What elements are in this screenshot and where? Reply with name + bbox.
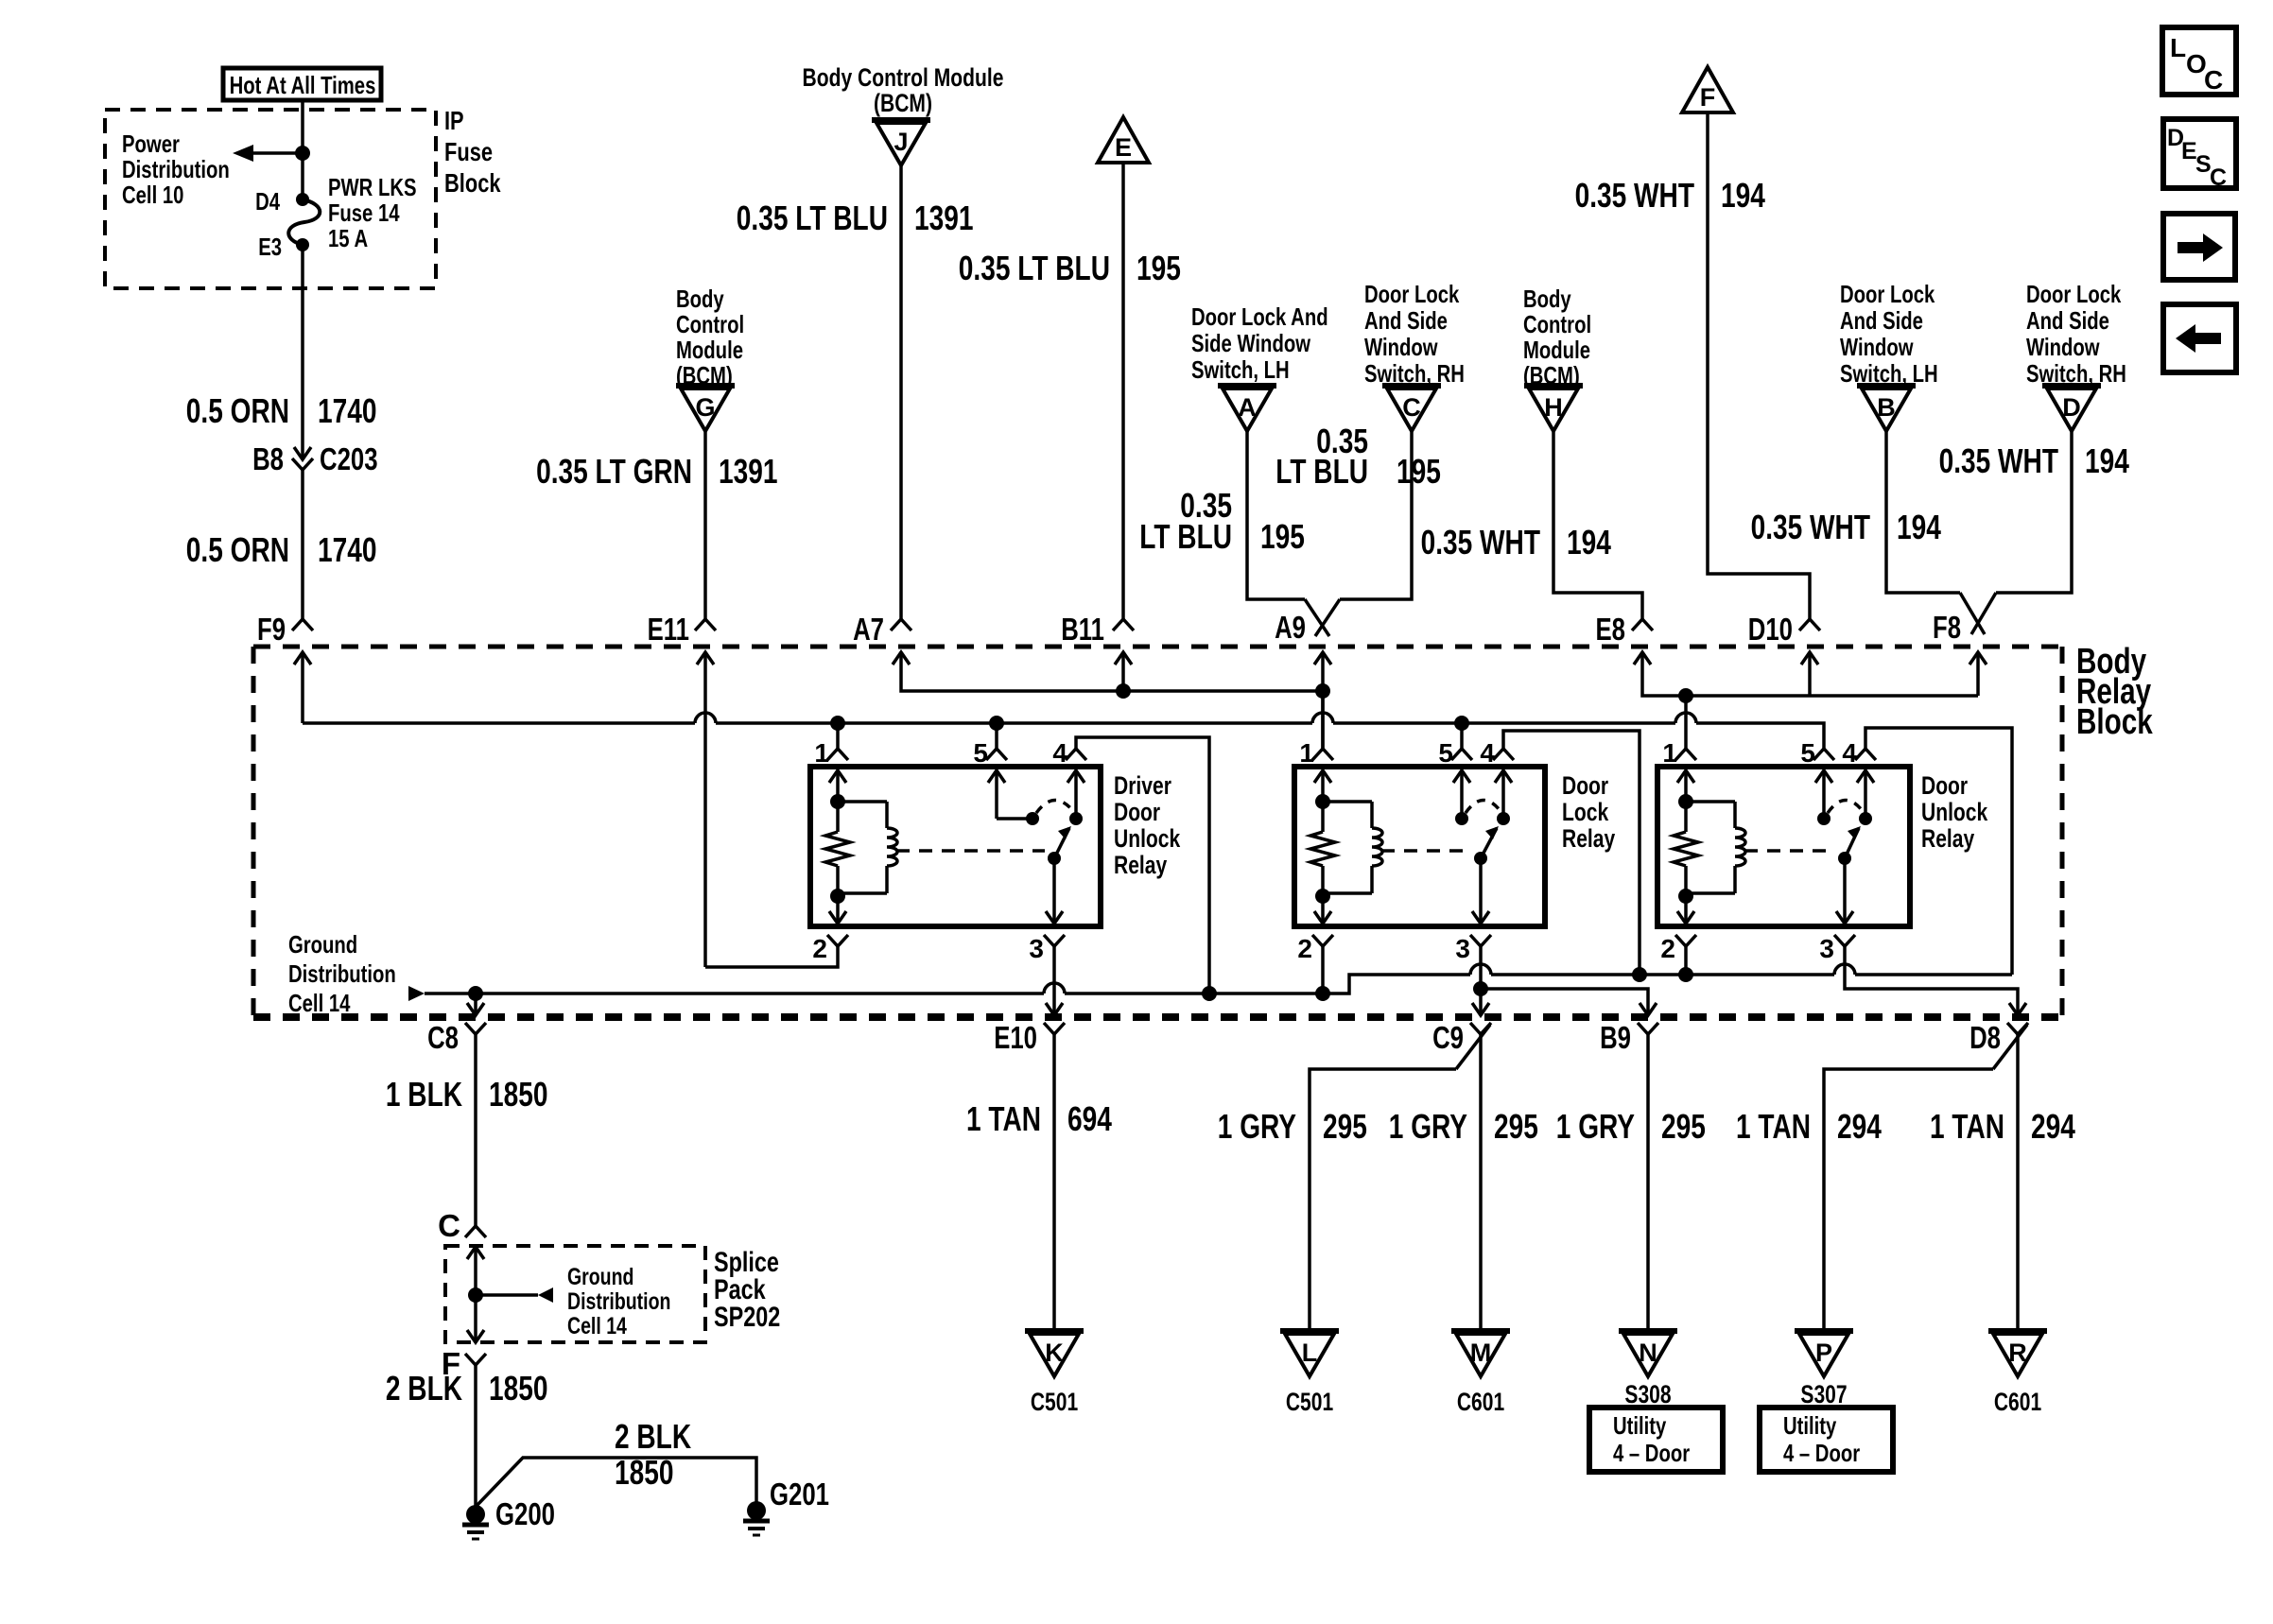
svg-text:4: 4 <box>1480 738 1495 768</box>
wire: C9 straight to M <box>1479 1034 1483 1329</box>
off-page connector G (BCM) <box>676 386 735 431</box>
svg-text:194: 194 <box>2085 441 2129 480</box>
svg-text:D8: D8 <box>1969 1020 2001 1055</box>
off-page connector H (BCM) <box>1524 386 1583 431</box>
connector pin D8 <box>1969 1003 2028 1069</box>
off-page connector B <box>1857 386 1916 431</box>
Utility 4-Door box (S308) <box>1589 1408 1723 1472</box>
connector pin B9 <box>1600 1003 1658 1329</box>
wire: relay2 pin 3 down to C9 and B9 <box>1473 946 1648 1015</box>
svg-text:G200: G200 <box>495 1496 555 1531</box>
svg-text:Body Control Module: Body Control Module <box>803 63 1004 92</box>
svg-text:0.35 WHT: 0.35 WHT <box>1751 508 1870 546</box>
svg-text:G: G <box>695 393 715 422</box>
svg-text:195: 195 <box>1136 249 1181 287</box>
wire label 1 BLK 1850 <box>386 1075 548 1114</box>
svg-text:PWR LKS: PWR LKS <box>328 173 417 201</box>
svg-text:C8: C8 <box>427 1020 459 1055</box>
svg-text:C203: C203 <box>320 441 378 476</box>
svg-text:Window: Window <box>2026 333 2100 361</box>
svg-text:Relay: Relay <box>1921 824 1974 853</box>
svg-text:Block: Block <box>444 168 501 198</box>
wire label 1 GRY 295 (M) <box>1389 1107 1538 1146</box>
off-page connector A <box>1218 386 1276 431</box>
svg-text:B8: B8 <box>252 441 284 476</box>
svg-text:Window: Window <box>1364 333 1438 361</box>
wire: relay3 pin 2 to ground line <box>1684 946 1688 975</box>
off-page connector M (C601) <box>1451 1331 1510 1416</box>
svg-text:5: 5 <box>1438 738 1453 768</box>
svg-text:4 – Door: 4 – Door <box>1783 1439 1860 1467</box>
connector pin F (splice pack output) <box>442 1346 486 1507</box>
wire: ground distribution line <box>425 964 2012 993</box>
svg-text:194: 194 <box>1721 176 1765 215</box>
svg-text:0.5 ORN: 0.5 ORN <box>186 530 289 569</box>
Ground Distribution Cell 14 label (block) <box>288 930 396 1017</box>
svg-text:Cell 14: Cell 14 <box>567 1313 627 1339</box>
wire: bus branch to relay2 pin 5 <box>1460 723 1464 749</box>
svg-text:Relay: Relay <box>1562 824 1615 853</box>
svg-text:D: D <box>2062 393 2081 422</box>
Splice Pack SP202 dashed box <box>445 1246 705 1342</box>
wire: fuse output 0.5 ORN 1740 (upper) <box>301 245 304 459</box>
svg-text:Door Lock: Door Lock <box>1364 280 1460 308</box>
svg-text:LT BLU: LT BLU <box>1139 517 1232 556</box>
svg-text:Unlock: Unlock <box>1921 798 1988 826</box>
svg-text:295: 295 <box>1661 1107 1706 1146</box>
svg-text:C: C <box>438 1208 460 1243</box>
svg-text:15 A: 15 A <box>328 224 368 252</box>
svg-text:J: J <box>894 128 908 156</box>
svg-text:Cell 10: Cell 10 <box>122 181 183 209</box>
wire label 0.35 LT BLU 195 <box>959 249 1181 287</box>
off-page connector D <box>2042 386 2101 431</box>
svg-text:F9: F9 <box>257 612 286 647</box>
svg-text:Module: Module <box>1523 336 1590 364</box>
svg-text:Cell 14: Cell 14 <box>288 989 351 1017</box>
svg-text:And Side: And Side <box>2026 306 2109 335</box>
Ground Distribution Cell 14 label (splice) <box>567 1264 670 1339</box>
wire: B down to F8 <box>1886 431 1985 634</box>
wire: bus branch to relay1 pin 1 <box>836 723 840 749</box>
svg-text:Door: Door <box>1114 798 1160 826</box>
svg-text:5: 5 <box>1800 738 1815 768</box>
wire: D8 branch to P <box>1824 1069 1993 1329</box>
wire: bus branch to relay1 pin 5 <box>995 723 998 749</box>
connector pin A7 <box>853 612 1323 691</box>
svg-text:L: L <box>2170 33 2186 62</box>
svg-text:Distribution: Distribution <box>567 1288 670 1315</box>
svg-text:0.35 LT GRN: 0.35 LT GRN <box>536 452 692 491</box>
svg-text:Power: Power <box>122 130 180 158</box>
svg-text:R: R <box>2008 1339 2027 1367</box>
svg-text:Ground: Ground <box>288 930 357 959</box>
off-page connector F <box>1682 67 1733 112</box>
svg-text:E8: E8 <box>1596 612 1626 647</box>
wire label 1 TAN 294 (R) <box>1930 1107 2075 1146</box>
svg-text:B9: B9 <box>1600 1020 1631 1055</box>
wire label 0.35 WHT 194 (switch B) <box>1751 508 1941 546</box>
svg-text:Side Window: Side Window <box>1191 329 1311 357</box>
wire label 1 GRY 295 (L) <box>1218 1107 1367 1146</box>
off-page connector L (C501) <box>1280 1331 1339 1416</box>
wire label 0.35 LT BLU 1391 <box>737 199 974 237</box>
svg-text:LT BLU: LT BLU <box>1275 452 1368 491</box>
connector pin E11 <box>648 612 714 967</box>
wire label 0.35 LT BLU 195 (switch C) <box>1275 422 1441 491</box>
connector pin E10 <box>994 1003 1065 1329</box>
wire label 0.5 ORN 1740 (lower) <box>186 530 377 569</box>
connector pin C9 <box>1432 1003 1491 1069</box>
svg-text:3: 3 <box>1819 934 1834 963</box>
svg-text:Ground: Ground <box>567 1264 633 1290</box>
svg-text:1850: 1850 <box>489 1075 548 1114</box>
wire label 1 GRY 295 (N) <box>1556 1107 1706 1146</box>
icon box arrow left <box>2163 304 2236 372</box>
svg-text:195: 195 <box>1260 517 1305 556</box>
wire label 0.5 ORN 1740 (upper) <box>186 391 377 430</box>
svg-text:0.35 WHT: 0.35 WHT <box>1939 441 2058 480</box>
connector pin D10 <box>1748 612 1818 696</box>
wire: H to E8, 0.35 WHT 194 <box>1553 431 1653 631</box>
connector pin A9 (lock command into block) <box>1275 610 1331 749</box>
svg-text:2 BLK: 2 BLK <box>615 1417 691 1456</box>
wire label 1 TAN 294 (P) <box>1736 1107 1882 1146</box>
wire label 0.35 LT BLU 195 (switch A) <box>1139 486 1305 556</box>
icon box DESC <box>2163 119 2236 191</box>
svg-text:F: F <box>1700 83 1716 112</box>
svg-text:1: 1 <box>1299 738 1314 768</box>
wire: C down to A9 <box>1315 431 1412 636</box>
splice SP202 internal node <box>467 1247 553 1342</box>
svg-text:5: 5 <box>973 738 988 768</box>
IP Fuse Block dashed outline <box>105 110 436 288</box>
wire: D down to F8 <box>1971 431 2072 634</box>
svg-text:K: K <box>1045 1339 1064 1367</box>
off-page connector R (C601) <box>1988 1331 2047 1416</box>
Body Control Module (BCM) label above G <box>676 285 744 389</box>
icon box LOC <box>2162 27 2236 95</box>
wire label 2 BLK / 1850 (G201 leg) <box>615 1417 691 1492</box>
Door Lock And Side Window Switch LH label (A) <box>1191 302 1328 384</box>
svg-text:Fuse: Fuse <box>444 137 493 166</box>
svg-text:1391: 1391 <box>914 199 974 237</box>
connector pin B11 <box>1061 612 1132 699</box>
svg-text:Distribution: Distribution <box>288 959 396 988</box>
svg-text:C: C <box>2210 164 2227 191</box>
ground G201 <box>743 1477 829 1535</box>
wire: A down to A9 <box>1247 431 1329 636</box>
wire: C9 branch to L <box>1310 1069 1456 1329</box>
svg-text:C: C <box>2204 65 2223 95</box>
Body Control Module (BCM) label above H <box>1523 285 1591 389</box>
svg-text:1 TAN: 1 TAN <box>966 1099 1041 1138</box>
Utility 4-Door box (S307) <box>1760 1408 1893 1472</box>
svg-text:0.35 WHT: 0.35 WHT <box>1421 523 1540 561</box>
svg-text:E11: E11 <box>648 612 689 647</box>
svg-text:1391: 1391 <box>719 452 778 491</box>
svg-text:0.5 ORN: 0.5 ORN <box>186 391 289 430</box>
svg-text:Door Lock And: Door Lock And <box>1191 302 1328 331</box>
wire: relay1 pin 3 down to E10 <box>1052 946 1056 1015</box>
wire: relay3 pin 3 to D8 <box>1845 946 2018 1015</box>
svg-text:C601: C601 <box>1457 1388 1504 1416</box>
wire: J to A7, 0.35 LT BLU 1391 <box>891 165 911 631</box>
wire label 2 BLK 1850 <box>386 1369 548 1408</box>
svg-text:Module: Module <box>676 336 743 364</box>
svg-text:1: 1 <box>1662 738 1677 768</box>
svg-text:1 GRY: 1 GRY <box>1389 1107 1467 1146</box>
svg-text:1 GRY: 1 GRY <box>1218 1107 1296 1146</box>
svg-text:E10: E10 <box>994 1020 1037 1055</box>
svg-text:295: 295 <box>1323 1107 1367 1146</box>
svg-text:C9: C9 <box>1432 1020 1464 1055</box>
svg-text:4 – Door: 4 – Door <box>1613 1439 1690 1467</box>
svg-text:Body: Body <box>676 285 724 313</box>
wire: E to B11, 0.35 LT BLU 195 <box>1113 163 1134 631</box>
off-page connector N (S308) <box>1619 1331 1677 1408</box>
svg-text:2: 2 <box>1660 934 1675 963</box>
Body Control Module (BCM) label above J <box>803 63 1004 117</box>
svg-text:1 BLK: 1 BLK <box>386 1075 462 1114</box>
off-page connector P (S307) <box>1795 1331 1853 1408</box>
connector pin C (splice pack input) <box>438 1208 486 1243</box>
junction dots on ground line <box>468 967 1693 1001</box>
wire: relay1 pin 2 to E11 <box>705 946 838 967</box>
svg-text:And Side: And Side <box>1840 306 1923 335</box>
svg-text:And Side: And Side <box>1364 306 1448 335</box>
svg-text:G201: G201 <box>770 1477 829 1512</box>
svg-text:IP: IP <box>444 106 464 135</box>
Body Relay Block label <box>2076 642 2153 742</box>
svg-text:E: E <box>1115 133 1132 162</box>
svg-text:(BCM): (BCM) <box>874 89 932 117</box>
icon box arrow right <box>2163 214 2235 280</box>
relay: Door Lock Relay <box>1294 738 1615 963</box>
svg-text:L: L <box>1302 1339 1318 1367</box>
svg-text:F8: F8 <box>1933 610 1961 645</box>
svg-text:B: B <box>1877 393 1896 422</box>
ground distribution feed arrow <box>408 986 425 1001</box>
wire: G to E11, 0.35 LT GRN 1391 <box>695 431 716 631</box>
Body Relay Block dashed border <box>253 647 2062 1017</box>
svg-text:D10: D10 <box>1748 612 1793 647</box>
relay: Door Unlock Relay <box>1657 738 1988 963</box>
svg-text:Utility: Utility <box>1613 1411 1667 1440</box>
wire: 0.5 ORN 1740 (lower) to F9 <box>292 470 313 631</box>
svg-text:0.35 LT BLU: 0.35 LT BLU <box>959 249 1110 287</box>
svg-text:0.35 WHT: 0.35 WHT <box>1575 176 1694 215</box>
svg-text:A9: A9 <box>1275 610 1306 645</box>
svg-text:H: H <box>1544 393 1563 422</box>
arrow to Power Distribution Cell 10 <box>233 145 310 162</box>
svg-text:Distribution: Distribution <box>122 155 230 183</box>
svg-text:1 TAN: 1 TAN <box>1736 1107 1811 1146</box>
svg-text:Door Lock: Door Lock <box>1840 280 1935 308</box>
svg-text:Switch, LH: Switch, LH <box>1191 355 1290 384</box>
Power Distribution Cell 10 label <box>122 130 230 209</box>
svg-text:294: 294 <box>1837 1107 1882 1146</box>
svg-text:294: 294 <box>2031 1107 2075 1146</box>
svg-text:N: N <box>1639 1339 1657 1367</box>
svg-text:Unlock: Unlock <box>1114 824 1181 853</box>
power source tag "Hot At All Times" <box>223 68 381 100</box>
wire: splice to G201 <box>476 1458 756 1507</box>
inline connector B8 / C203 <box>252 441 377 476</box>
svg-text:Utility: Utility <box>1783 1411 1837 1440</box>
svg-text:295: 295 <box>1494 1107 1538 1146</box>
svg-text:4: 4 <box>1842 738 1857 768</box>
wire: battery feed into fuse block <box>301 100 304 199</box>
wire: relay2 pin 2 to ground line <box>1321 946 1325 993</box>
svg-text:194: 194 <box>1897 508 1941 546</box>
svg-text:Door: Door <box>1921 771 1968 800</box>
ground G200 <box>462 1496 555 1539</box>
Door Lock And Side Window Switch RH label (D) <box>2026 280 2126 388</box>
svg-text:M: M <box>1470 1339 1492 1367</box>
Door Lock And Side Window Switch LH label (B) <box>1840 280 1938 388</box>
svg-text:2: 2 <box>1297 934 1312 963</box>
junction dots on power bus <box>830 716 1469 731</box>
connector pin F8 (unlock command into block) <box>1933 610 1987 696</box>
svg-text:Control: Control <box>676 310 744 338</box>
wire: E8/D10/F8 unlock bus branch to relay3 pin 1 <box>1678 688 1693 749</box>
svg-text:3: 3 <box>1455 934 1470 963</box>
svg-text:Door: Door <box>1562 771 1608 800</box>
off-page connector J (BCM) <box>872 120 930 165</box>
svg-text:1 TAN: 1 TAN <box>1930 1107 2004 1146</box>
wire: relay3 pin 4 loop to ground line <box>1865 728 2012 975</box>
svg-text:E3: E3 <box>258 233 282 261</box>
IP Fuse Block label <box>444 106 501 198</box>
svg-text:S308: S308 <box>1624 1380 1671 1408</box>
svg-text:Lock: Lock <box>1562 798 1609 826</box>
svg-text:3: 3 <box>1029 934 1044 963</box>
svg-text:Relay: Relay <box>1114 851 1167 879</box>
svg-text:195: 195 <box>1397 452 1441 491</box>
svg-text:C601: C601 <box>1994 1388 2041 1416</box>
svg-text:1850: 1850 <box>489 1369 548 1408</box>
svg-text:194: 194 <box>1567 523 1611 561</box>
svg-text:2: 2 <box>812 934 827 963</box>
Splice Pack SP202 label <box>714 1247 780 1333</box>
svg-text:A: A <box>1238 393 1257 422</box>
svg-text:2 BLK: 2 BLK <box>386 1369 462 1408</box>
svg-text:694: 694 <box>1067 1099 1112 1138</box>
svg-text:Window: Window <box>1840 333 1914 361</box>
wire: F9 power bus inside block <box>303 713 1824 749</box>
wire: F to D10, 0.35 WHT 194 <box>1708 112 1820 631</box>
wire: relay1 pin 4 loop to ground line <box>1076 737 1209 993</box>
svg-text:B11: B11 <box>1061 612 1104 647</box>
connector pin C8 <box>427 1003 486 1226</box>
svg-text:S307: S307 <box>1800 1380 1847 1408</box>
svg-text:Fuse 14: Fuse 14 <box>328 199 400 227</box>
svg-text:0.35 LT BLU: 0.35 LT BLU <box>737 199 888 237</box>
connector pin F9 at Body Relay Block <box>257 612 311 723</box>
wire label 0.35 WHT 194 (switch D) <box>1939 441 2129 480</box>
svg-text:1: 1 <box>814 738 829 768</box>
wire label 0.35 LT GRN 1391 <box>536 452 777 491</box>
wire label 0.35 WHT 194 (H) <box>1421 523 1611 561</box>
wire: A7/B11 lock bus to A9 / relay2 pin 1 <box>1315 683 1330 749</box>
wire: relay2 pin 4 loop to ground line <box>1503 731 1640 975</box>
svg-text:1740: 1740 <box>318 391 377 430</box>
wire label 0.35 WHT 194 (F) <box>1575 176 1765 215</box>
svg-text:Door Lock: Door Lock <box>2026 280 2122 308</box>
svg-text:1 GRY: 1 GRY <box>1556 1107 1635 1146</box>
fuse PWR LKS Fuse 14 15 A (terminals D4 / E3) <box>255 173 416 261</box>
svg-text:1740: 1740 <box>318 530 377 569</box>
svg-text:4: 4 <box>1052 738 1067 768</box>
svg-text:C501: C501 <box>1286 1388 1333 1416</box>
Door Lock And Side Window Switch RH label (C) <box>1364 280 1465 388</box>
relay: Driver Door Unlock Relay <box>810 738 1181 963</box>
svg-text:Hot At All Times: Hot At All Times <box>230 71 376 99</box>
svg-text:A7: A7 <box>853 612 884 647</box>
off-page connector C <box>1382 386 1441 431</box>
svg-text:1850: 1850 <box>615 1453 674 1492</box>
wire: ground line branch to C8 <box>474 993 477 1015</box>
wire: D8 straight to R <box>2016 1034 2020 1329</box>
svg-text:SP202: SP202 <box>714 1302 780 1333</box>
svg-text:C501: C501 <box>1031 1388 1078 1416</box>
connector pin E8 <box>1596 612 1979 696</box>
svg-text:P: P <box>1815 1339 1832 1367</box>
svg-text:C: C <box>1402 393 1421 422</box>
svg-text:Block: Block <box>2076 702 2153 742</box>
svg-text:Body: Body <box>1523 285 1571 313</box>
svg-text:Control: Control <box>1523 310 1591 338</box>
off-page connector K (C501) <box>1025 1331 1084 1416</box>
svg-text:Driver: Driver <box>1114 771 1171 800</box>
off-page connector E <box>1098 117 1149 163</box>
wire label 1 TAN 694 <box>966 1099 1112 1138</box>
svg-text:D4: D4 <box>255 187 280 216</box>
